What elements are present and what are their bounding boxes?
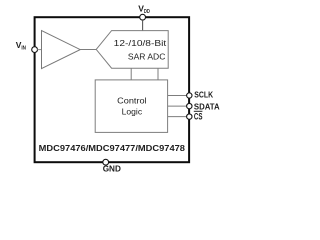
wire control logic to CS (168, 116, 187, 118)
svg-text:SCLK: SCLK (194, 90, 213, 100)
wire control logic to SDATA (168, 105, 187, 107)
pin VIN (32, 47, 38, 53)
pin CS (187, 114, 192, 119)
CS overline (194, 110, 203, 112)
svg-text:IN: IN (21, 45, 26, 51)
svg-text:MDC97476/MDC97477/MDC97478: MDC97476/MDC97477/MDC97478 (39, 143, 186, 153)
wire SAR ADC to control logic right (157, 68, 159, 80)
wire VIN to buffer (37, 49, 41, 51)
pin VDD (140, 14, 146, 20)
wire VDD to SAR ADC (142, 20, 144, 31)
svg-text:CS: CS (194, 112, 203, 122)
wire buffer to SAR ADC (80, 49, 96, 51)
pin GND (103, 159, 109, 165)
svg-text:SAR ADC: SAR ADC (128, 52, 166, 62)
svg-text:SDATA: SDATA (194, 102, 220, 112)
pin SCLK (187, 93, 192, 98)
wire control logic to SCLK (168, 95, 187, 97)
svg-text:Control: Control (117, 96, 147, 106)
svg-text:Logic: Logic (122, 107, 142, 117)
svg-text:DD: DD (144, 9, 150, 15)
block control logic (95, 80, 167, 132)
op-amp buffer A1 (42, 31, 81, 69)
pin SDATA (187, 103, 192, 108)
chip outline U1 (35, 17, 190, 162)
svg-text:GND: GND (103, 164, 121, 174)
wire SAR ADC to control logic left (130, 68, 132, 80)
svg-text:12-/10/8-Bit: 12-/10/8-Bit (114, 38, 167, 48)
block SAR ADC (96, 31, 168, 69)
